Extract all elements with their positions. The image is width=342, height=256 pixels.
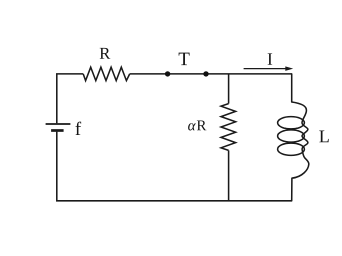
node dot left of T [165, 71, 170, 76]
wire: alphaR bottom lead [228, 150, 230, 200]
label R [100, 48, 111, 59]
label L [319, 131, 328, 143]
node dot right of T [203, 71, 208, 76]
wire: alphaR top lead [228, 74, 230, 104]
current arrow I [244, 66, 294, 71]
resistor alphaR [221, 104, 236, 151]
wire: top, from R through nodes to inductor corner [130, 73, 292, 75]
wire: battery bottom lead, bottom wire [57, 132, 292, 201]
resistor R [83, 67, 130, 80]
battery f (long thin plate + short thick plate) [46, 124, 71, 131]
wire: battery top lead, left-top corner, to R [57, 74, 83, 123]
label I [268, 53, 273, 64]
label f [75, 122, 81, 135]
label T [179, 53, 190, 65]
label R (of alphaR) [197, 120, 207, 130]
inductor L (coil: three loops + weaving spine with leads) [278, 74, 309, 201]
label alpha (of alphaR) [188, 123, 196, 130]
